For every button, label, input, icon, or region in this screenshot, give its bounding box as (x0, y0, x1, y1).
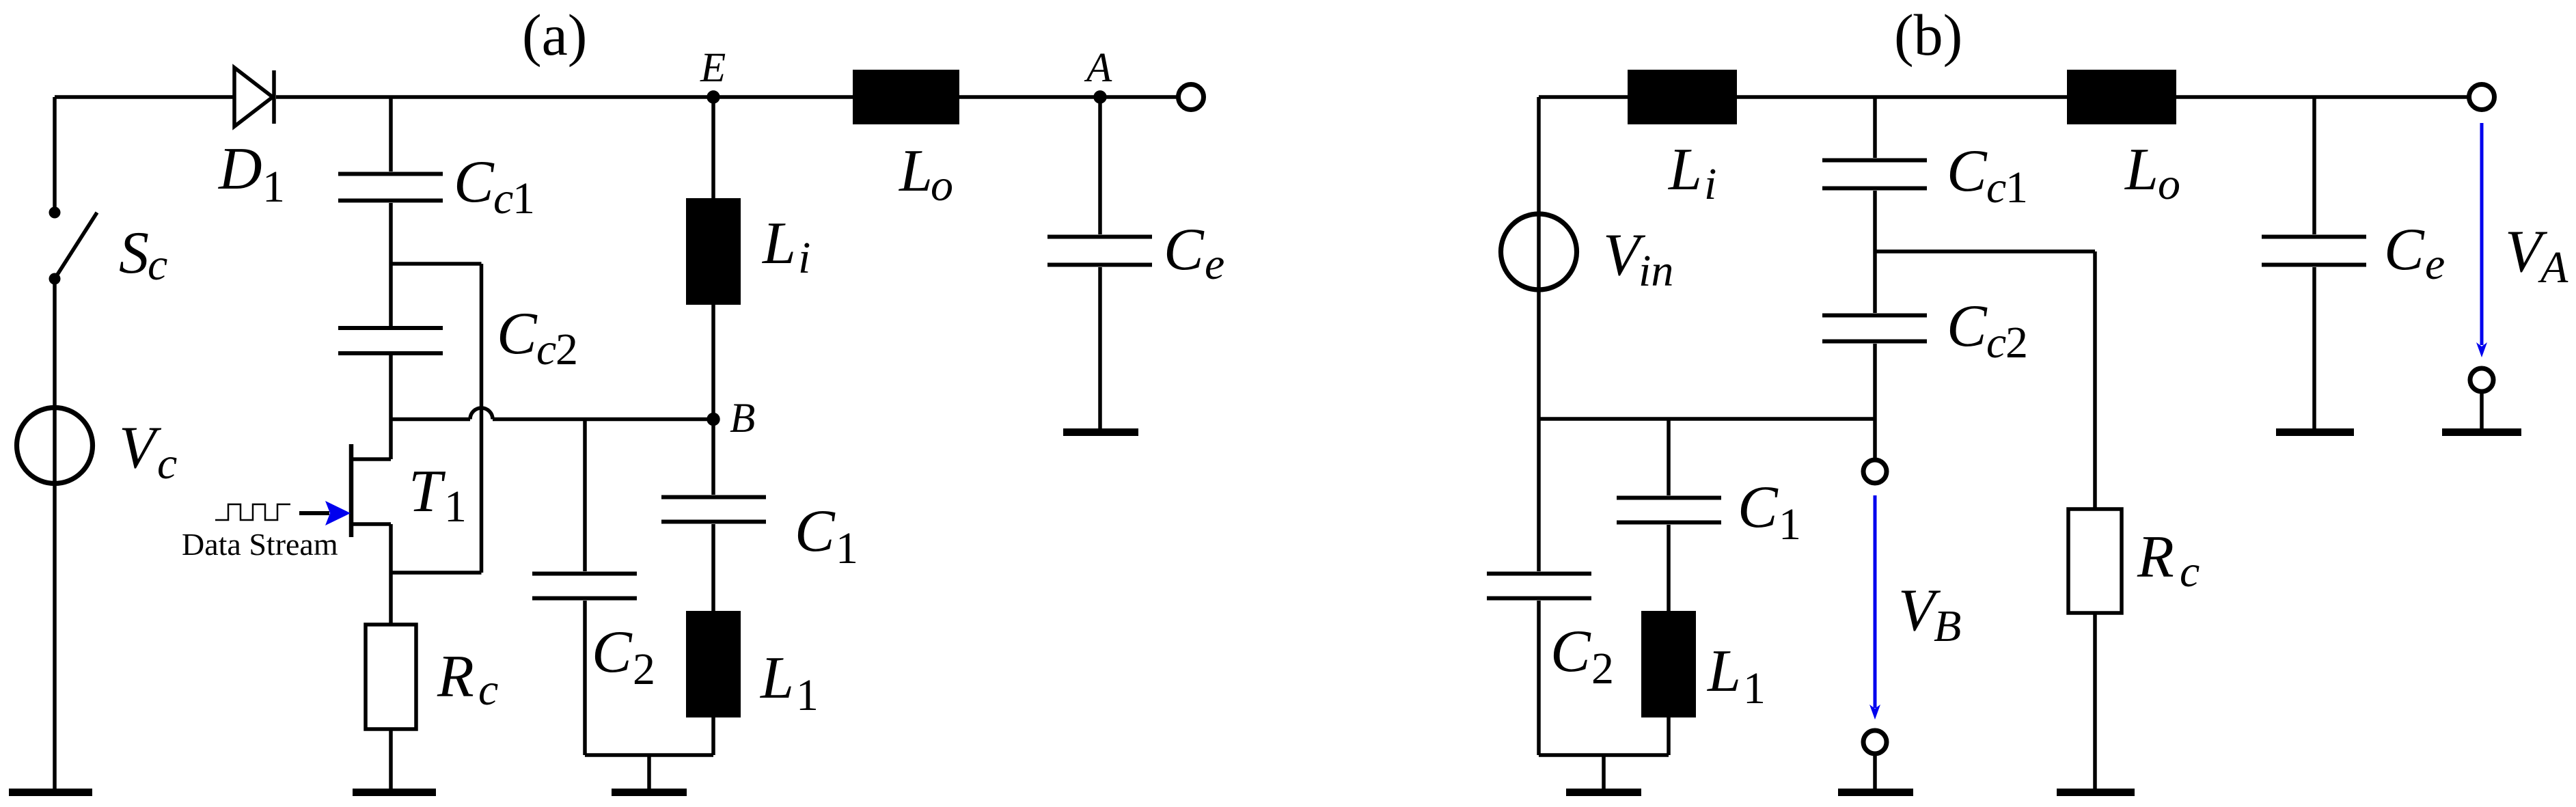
svg-text:L: L (759, 645, 794, 711)
svg-text:C: C (1947, 293, 1988, 359)
svg-text:R: R (2137, 524, 2174, 590)
arrow VB (1874, 495, 1877, 708)
svg-text:1: 1 (262, 162, 285, 212)
wire: middle rail of circuit b (1539, 417, 1875, 421)
svg-text:o: o (931, 161, 953, 210)
svg-text:C: C (592, 619, 633, 685)
svg-text:S: S (119, 220, 149, 286)
voltage source Vin (1501, 214, 1577, 290)
svg-text:o: o (2158, 159, 2180, 209)
svg-text:C: C (1164, 217, 1205, 283)
svg-text:E: E (700, 45, 726, 91)
output terminal of circuit b (2469, 85, 2495, 110)
svg-text:in: in (1639, 246, 1673, 296)
svg-text:2: 2 (556, 325, 578, 374)
wire: tap between Cc1 and Cc2 (391, 262, 482, 266)
capacitor C1 (711, 420, 715, 495)
svg-text:c: c (478, 665, 498, 715)
capacitor Ce (b) (2312, 97, 2316, 234)
svg-text:B: B (730, 396, 755, 441)
svg-text:i: i (798, 233, 810, 283)
svg-text:(a): (a) (522, 2, 587, 68)
capacitor C2 (b) (1487, 574, 1591, 599)
ground (below C2/L1 rail) (647, 755, 651, 789)
svg-text:1: 1 (444, 482, 467, 532)
svg-text:Data Stream: Data Stream (182, 527, 338, 562)
svg-text:i: i (1704, 159, 1716, 209)
svg-text:c: c (157, 439, 177, 489)
svg-text:C: C (795, 498, 836, 564)
svg-text:L: L (898, 138, 933, 204)
switch Sc (49, 207, 61, 219)
svg-text:1: 1 (836, 523, 858, 573)
capacitor Cc2 (b) (1873, 251, 1877, 313)
svg-text:c: c (1986, 163, 2006, 213)
svg-text:c: c (2180, 547, 2200, 597)
wire: tap between Cc1 and Cc2 to Rc branch (1875, 249, 2095, 254)
node A (1093, 90, 1106, 103)
wire: stub to VB terminal (1873, 419, 1877, 459)
svg-text:c: c (493, 174, 513, 223)
ground (below Vc) (9, 789, 92, 796)
svg-text:1: 1 (2005, 163, 2028, 213)
wire: stub below VB terminal (1873, 754, 1877, 789)
svg-text:L: L (761, 210, 796, 277)
svg-text:L: L (2124, 137, 2159, 203)
node B (707, 413, 720, 426)
svg-text:2: 2 (633, 644, 655, 694)
ground (below Rc) (353, 789, 436, 796)
svg-text:c: c (148, 240, 167, 290)
svg-text:C: C (497, 301, 538, 367)
wire: junction from tap line to source (391, 571, 482, 575)
svg-text:D: D (218, 136, 262, 202)
svg-text:A: A (1084, 45, 1112, 91)
svg-text:c: c (1986, 318, 2006, 368)
svg-text:C: C (1738, 474, 1779, 541)
wire: horizontal rail to node B with hopover (391, 418, 470, 422)
wire: stub below VA terminal (2480, 392, 2484, 428)
svg-text:1: 1 (796, 670, 819, 720)
svg-text:T: T (409, 459, 446, 525)
output terminal of circuit a (1179, 85, 1204, 110)
ground (below VA) (2442, 428, 2521, 436)
svg-text:C: C (2384, 217, 2425, 283)
voltage source Vc (17, 408, 93, 484)
svg-text:B: B (1934, 601, 1961, 651)
svg-text:e: e (1205, 239, 1224, 289)
svg-text:1: 1 (1743, 664, 1766, 713)
svg-text:C: C (1947, 138, 1988, 204)
capacitor Ce (1098, 97, 1102, 234)
arrow VA (2480, 123, 2484, 345)
capacitor C1 (b) (1667, 419, 1671, 495)
capacitor Cc1 (b) (1873, 97, 1877, 158)
wire hop over crossing (470, 408, 493, 420)
inductor L1 (686, 611, 741, 717)
ground (below Rc b) (2057, 789, 2135, 796)
svg-text:1: 1 (1779, 500, 1801, 549)
resistor Rc (366, 625, 416, 729)
terminal VB top (1863, 460, 1887, 483)
capacitor Cc2 (389, 264, 393, 326)
ground (below Ce b) (2276, 428, 2354, 436)
ground (below Ce) (1063, 428, 1138, 436)
resistor Rc (b) (2093, 251, 2097, 509)
inductor Li (b) (1628, 70, 1737, 124)
svg-text:1: 1 (512, 174, 535, 223)
inductor Lo (853, 70, 959, 124)
svg-text:A: A (2538, 243, 2568, 292)
capacitor Cc1 (389, 97, 393, 172)
terminal VB bottom (1863, 730, 1887, 754)
inductor Lo (b) (2067, 70, 2176, 124)
svg-text:c: c (536, 325, 556, 374)
wire: bottom rail of circuit b (1539, 753, 1669, 757)
node E (707, 90, 720, 103)
svg-text:L: L (1706, 638, 1741, 705)
wire: vertical from Cc1/Cc2 tap down across rail to transistor source junction (480, 264, 484, 573)
data stream arrow (299, 511, 329, 515)
terminal VA bottom (2470, 368, 2493, 392)
inductor Li (711, 97, 715, 198)
wire: top rail of circuit a (55, 95, 1178, 99)
wire: top rail of circuit b (1539, 95, 2470, 99)
diode D1 (234, 68, 274, 126)
svg-text:2: 2 (2005, 318, 2028, 368)
svg-text:2: 2 (1591, 644, 1614, 694)
ground (below VB) (1838, 789, 1913, 796)
wire: left vertical through source down to C2 (1537, 97, 1541, 571)
svg-text:C: C (1550, 618, 1591, 685)
wire: left vertical from top rail to switch (53, 97, 57, 213)
ground (below C2/L1 rail b) (1602, 755, 1606, 789)
svg-text:(b): (b) (1894, 2, 1962, 68)
svg-text:e: e (2425, 239, 2445, 289)
svg-text:R: R (437, 644, 474, 710)
svg-text:C: C (454, 149, 495, 215)
data stream square wave (215, 504, 290, 520)
svg-text:V: V (119, 415, 162, 481)
transistor T1 (349, 444, 354, 537)
inductor L1 (b) (1641, 611, 1696, 717)
capacitor C2 (583, 420, 587, 572)
wire: bottom rail between C2 and L1 (585, 753, 713, 757)
wire: switch to ground through source (53, 279, 57, 789)
svg-text:L: L (1667, 137, 1702, 203)
